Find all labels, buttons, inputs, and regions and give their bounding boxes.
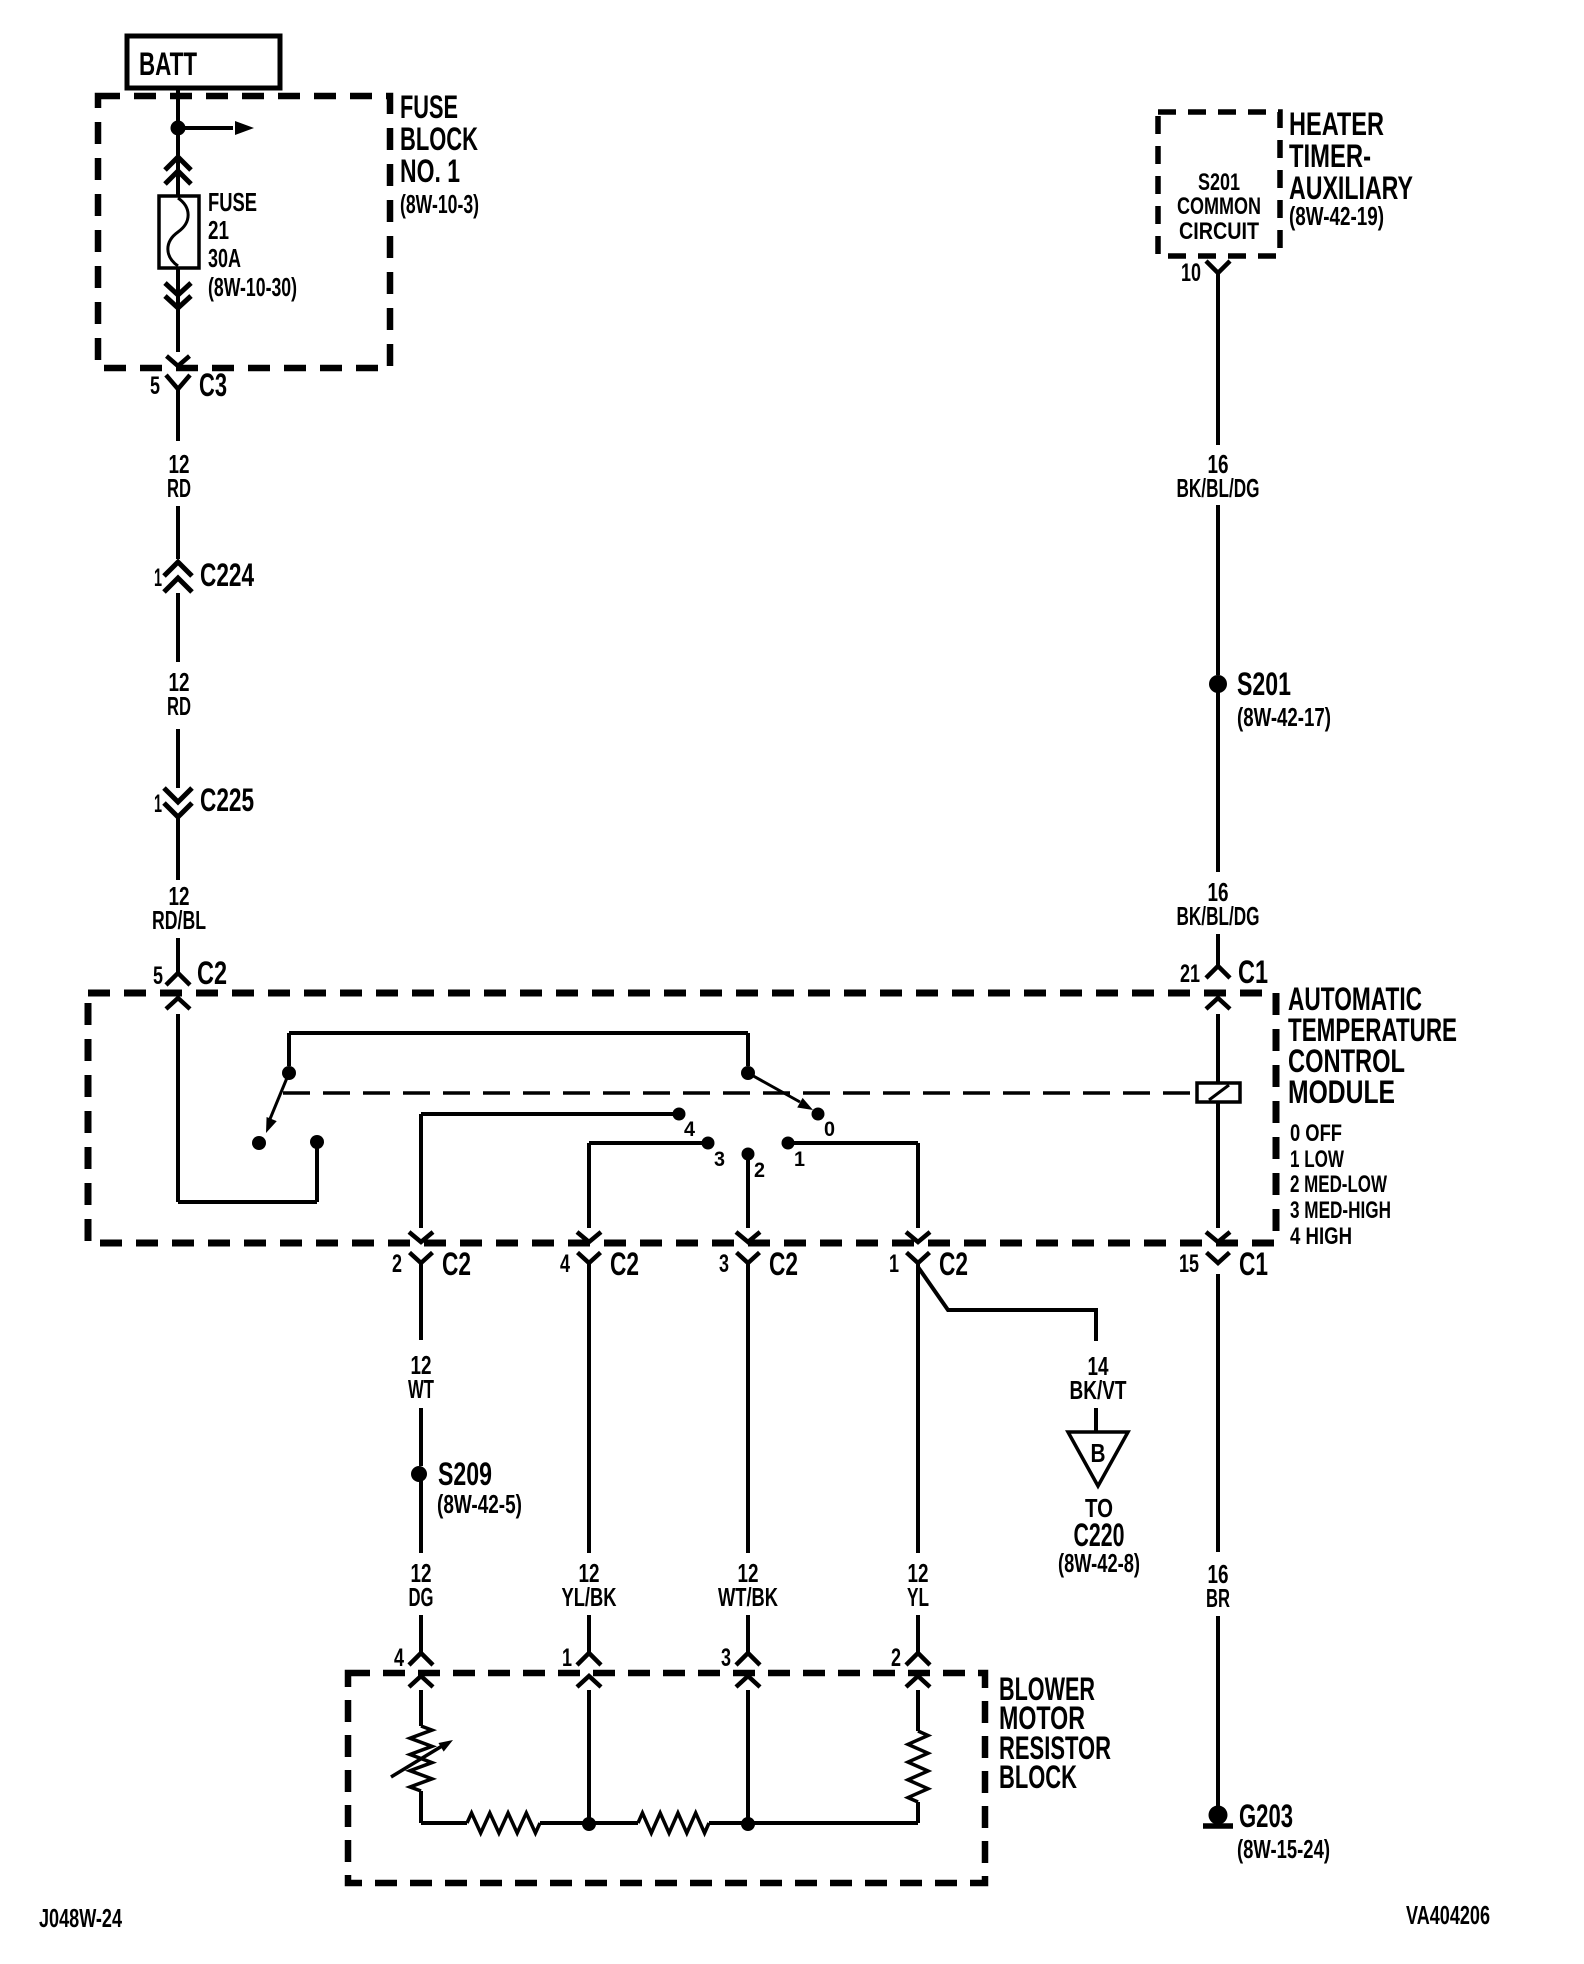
svg-text:BK/VT: BK/VT [1070,1375,1127,1405]
svg-text:YL/BK: YL/BK [562,1582,617,1612]
svg-text:1: 1 [889,1250,899,1278]
svg-text:WT: WT [408,1374,434,1404]
svg-text:VA404206: VA404206 [1406,1900,1490,1930]
svg-text:G203: G203 [1239,1798,1293,1834]
svg-text:3: 3 [719,1250,729,1278]
svg-text:MODULE: MODULE [1288,1074,1395,1110]
svg-text:15: 15 [1179,1250,1199,1278]
svg-text:21: 21 [208,215,229,245]
svg-text:C224: C224 [200,557,254,593]
svg-text:C225: C225 [200,782,254,818]
svg-text:3: 3 [714,1148,725,1171]
svg-text:4 HIGH: 4 HIGH [1290,1223,1352,1250]
svg-text:1: 1 [794,1148,805,1171]
svg-text:HEATER: HEATER [1289,106,1384,142]
svg-text:1: 1 [154,564,162,592]
svg-text:BK/BL/DG: BK/BL/DG [1177,473,1260,503]
svg-text:(8W-42-17): (8W-42-17) [1237,702,1331,732]
svg-text:S201: S201 [1237,666,1291,702]
svg-text:3 MED-HIGH: 3 MED-HIGH [1290,1197,1391,1224]
svg-text:5: 5 [153,962,163,990]
svg-text:10: 10 [1181,259,1201,287]
svg-text:TIMER-: TIMER- [1289,138,1371,174]
svg-text:CIRCUIT: CIRCUIT [1179,218,1259,245]
svg-text:1: 1 [154,790,162,818]
svg-text:B: B [1091,1438,1106,1468]
svg-text:4: 4 [684,1118,695,1141]
svg-text:21: 21 [1180,960,1200,988]
svg-text:2: 2 [891,1644,901,1672]
svg-text:RD: RD [167,473,191,503]
svg-text:BATT: BATT [139,46,197,82]
svg-text:C2: C2 [610,1246,639,1282]
svg-text:FUSE: FUSE [208,187,257,217]
svg-text:COMMON: COMMON [1177,193,1261,220]
svg-text:0 OFF: 0 OFF [1290,1120,1342,1147]
svg-text:NO. 1: NO. 1 [400,153,460,189]
svg-text:BR: BR [1206,1583,1230,1613]
svg-text:C1: C1 [1238,954,1268,990]
svg-text:DG: DG [409,1582,434,1612]
svg-text:C3: C3 [199,367,227,403]
svg-text:(8W-42-8): (8W-42-8) [1058,1548,1140,1578]
svg-text:BK/BL/DG: BK/BL/DG [1177,901,1260,931]
svg-text:(8W-15-24): (8W-15-24) [1237,1834,1330,1864]
svg-text:C2: C2 [442,1246,471,1282]
svg-text:4: 4 [394,1644,404,1672]
svg-text:C2: C2 [939,1246,968,1282]
svg-text:3: 3 [721,1644,731,1672]
svg-text:4: 4 [560,1250,570,1278]
svg-text:0: 0 [824,1118,835,1141]
svg-text:C2: C2 [769,1246,798,1282]
svg-text:(8W-42-5): (8W-42-5) [437,1489,522,1519]
svg-text:2: 2 [392,1250,402,1278]
svg-text:J048W-24: J048W-24 [39,1903,122,1933]
svg-text:WT/BK: WT/BK [718,1582,778,1612]
svg-text:1 LOW: 1 LOW [1290,1146,1344,1173]
svg-text:(8W-10-30): (8W-10-30) [208,272,297,302]
svg-text:(8W-42-19): (8W-42-19) [1289,201,1384,231]
svg-text:5: 5 [150,372,160,400]
svg-text:FUSE: FUSE [400,89,458,125]
svg-text:BLOCK: BLOCK [400,121,478,157]
svg-text:S201: S201 [1198,169,1240,196]
svg-text:RD: RD [167,691,191,721]
svg-text:(8W-10-3): (8W-10-3) [400,189,479,219]
svg-text:C1: C1 [1239,1246,1268,1282]
svg-text:S209: S209 [438,1456,492,1492]
svg-text:30A: 30A [208,243,241,273]
svg-text:2 MED-LOW: 2 MED-LOW [1290,1171,1387,1198]
svg-text:1: 1 [562,1644,572,1672]
svg-text:C2: C2 [197,955,227,991]
svg-text:RD/BL: RD/BL [152,905,206,935]
svg-text:BLOCK: BLOCK [999,1759,1077,1795]
svg-text:YL: YL [907,1582,929,1612]
svg-text:2: 2 [754,1159,765,1182]
